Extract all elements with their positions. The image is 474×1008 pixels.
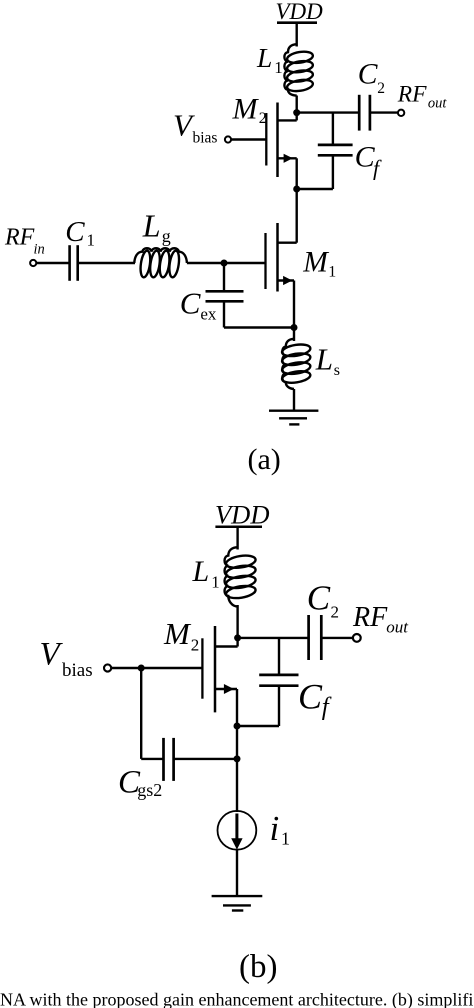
label Vbias (a) [173,108,217,147]
svg-text:2: 2 [259,110,267,127]
svg-text:VDD: VDD [276,0,324,24]
label Cgs2 (b) [118,764,162,800]
svg-text:VDD: VDD [215,500,269,530]
svg-text:(b): (b) [239,949,277,985]
svg-text:C: C [180,286,201,321]
capacitor C2 (b) [309,615,353,660]
wire L1 to node A1 [296,96,298,121]
label RFout (a) [397,82,448,112]
svg-text:C: C [65,216,85,248]
inductor Ls coil [281,339,311,389]
node D1 junction dot (b) [234,634,241,641]
terminal Vbias (b) open circle [104,664,111,671]
label Lg [142,207,171,246]
svg-text:C: C [358,59,378,91]
capacitor Cgs2 (b) [141,668,237,781]
label Cf (a) [355,141,382,181]
svg-text:ex: ex [200,305,217,324]
svg-text:L: L [256,42,272,73]
node A1 junction dot [293,109,300,116]
label Cf (b) [298,676,332,720]
terminal RFout (a) open circle [398,110,404,116]
svg-text:C: C [298,676,323,716]
svg-text:1: 1 [211,573,220,592]
svg-text:g: g [162,226,171,246]
net VDD label (b) [215,500,269,530]
label M2 [232,92,267,127]
label (b) [239,949,277,985]
svg-text:RF: RF [397,82,427,108]
capacitor Cex [206,263,295,328]
node A2 junction dot [293,186,300,193]
wire C1 to Lg [78,262,135,264]
capacitor Cf (a) [297,113,353,189]
label (a) [248,443,281,476]
wire current source to ground (b) [236,850,238,896]
svg-text:2: 2 [191,636,200,655]
capacitor C1 [70,245,78,281]
svg-text:2: 2 [331,603,340,622]
label L1 (b) [192,555,220,591]
label M2 (b) [163,616,199,654]
svg-text:V: V [40,637,64,673]
svg-text:bias: bias [62,660,93,681]
svg-text:NA with the proposed gain enha: NA with the proposed gain enhancement ar… [0,990,474,1008]
svg-text:L: L [192,555,210,588]
label M1 [302,247,336,281]
node D2 junction dot on gate wire (b) [138,665,145,672]
net VDD label [276,0,324,24]
label Vbias (b) [40,637,93,681]
svg-text:L: L [142,207,161,243]
capacitor Cf (b) [237,638,299,726]
svg-text:2: 2 [377,80,385,97]
terminal Vbias (a) open circle [225,136,231,142]
caption text [0,990,474,1008]
wire node A3 to Ls [293,328,295,342]
wire node D1 to C2 (b) [238,637,309,639]
label C2 (a) [358,59,385,98]
svg-text:M: M [163,616,192,651]
wire RFin to C1 [36,262,69,264]
terminal RFin open circle [30,260,36,266]
svg-text:RF: RF [4,224,35,250]
svg-text:f: f [373,156,382,181]
capacitor C2 (a) [359,95,398,131]
svg-text:in: in [34,242,45,258]
svg-text:bias: bias [193,130,218,147]
wire source node to Cgs2 node (b) [236,726,238,759]
svg-text:1: 1 [274,58,283,77]
label RFin [4,224,45,257]
node D3 junction dot source (b) [234,723,241,730]
terminal RFout (b) open circle [353,634,361,642]
svg-text:1: 1 [328,264,336,281]
wire node A1 to C2 [297,111,360,113]
VDD supply rail bar [277,21,317,24]
label Ls [315,342,340,379]
svg-text:out: out [386,618,409,637]
transistor M2 (b) [111,626,237,726]
ground (a) [269,411,318,425]
svg-text:L: L [315,342,333,377]
wire node D4 to current source (b) [236,759,238,812]
label C2 (b) [307,578,339,621]
transistor M2 [231,103,297,190]
node A3 junction dot [291,324,298,331]
label i1 [270,809,291,848]
svg-text:(a): (a) [248,443,281,476]
wire Ls to ground [293,389,295,411]
svg-text:1: 1 [281,828,290,848]
label Cex [180,286,217,324]
node B junction dot [221,260,228,267]
inductor L1 (b) coil [225,547,257,606]
wire VDD to L1 [296,23,298,47]
wire VDD to L1 (b) [236,527,238,550]
inductor L1 coil [284,44,313,95]
label RFout (b) [352,602,409,637]
label L1 [256,42,283,77]
inductor Lg coil [134,248,187,278]
svg-text:M: M [232,92,260,125]
svg-text:out: out [428,95,448,111]
label C1 [65,216,95,250]
node D4 junction dot (b) [234,755,241,762]
svg-text:C: C [307,578,331,617]
current source i1 [218,811,257,850]
wire node B to M1 gate [224,262,266,264]
svg-text:i: i [270,809,280,848]
svg-text:s: s [334,362,340,379]
ground (b) [212,896,263,910]
wire L1 to node D1 (b) [236,605,238,647]
transistor M1 [266,189,297,328]
svg-text:gs2: gs2 [137,780,162,800]
svg-text:M: M [302,247,329,279]
VDD underline bar (b) [215,526,262,529]
svg-text:1: 1 [87,231,96,250]
wire Lg to node B [187,262,224,264]
svg-text:f: f [322,694,332,721]
svg-text:RF: RF [352,602,388,633]
